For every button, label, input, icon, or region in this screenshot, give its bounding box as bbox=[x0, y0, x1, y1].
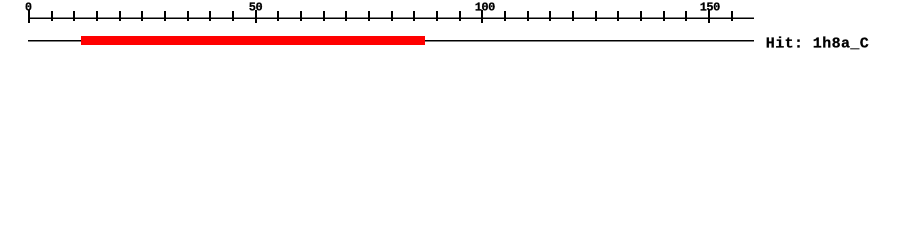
svg-text:150: 150 bbox=[700, 1, 720, 15]
svg-text:50: 50 bbox=[249, 1, 263, 15]
svg-text:Hit: 1h8a_C: Hit: 1h8a_C bbox=[766, 36, 869, 53]
svg-text:0: 0 bbox=[25, 1, 32, 15]
svg-text:100: 100 bbox=[475, 1, 495, 15]
